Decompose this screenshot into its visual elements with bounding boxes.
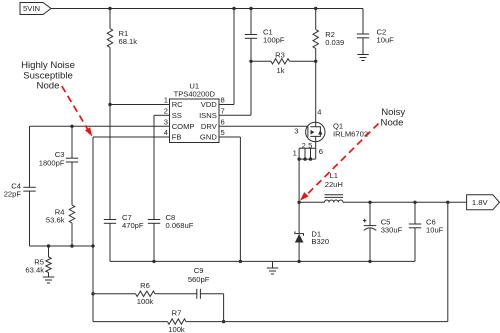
node switch node (noisy) [297, 201, 300, 204]
capacitor C8 0.068uF [148, 213, 194, 261]
svg-text:1k: 1k [276, 66, 284, 75]
svg-text:ISNS: ISNS [199, 111, 217, 120]
wire SS pin to C8 column [154, 115, 170, 219]
power flag 1.8V output [467, 195, 500, 210]
svg-text:FB: FB [172, 133, 182, 142]
svg-text:6: 6 [221, 118, 225, 127]
svg-text:10uF: 10uF [377, 36, 395, 45]
node junction ground rail at GND pin [239, 260, 242, 263]
svg-text:53.6k: 53.6k [46, 215, 65, 224]
pin number 5 (GND) [221, 128, 225, 137]
node junction rail at R4 [70, 244, 73, 247]
power flag 5VIN [20, 3, 51, 15]
svg-text:SS: SS [172, 111, 182, 120]
wire RC pin to R1 column [110, 104, 170, 106]
svg-text:8: 8 [221, 96, 225, 105]
node junction ground rail at D1 [297, 260, 300, 263]
capacitor C3 1800pF [39, 126, 78, 167]
svg-text:Node: Node [37, 80, 60, 91]
node junction output at C6 [413, 201, 416, 204]
pin number 6 (Q1 source) [319, 147, 323, 156]
node junction top rail at R2 [314, 7, 317, 10]
svg-text:100k: 100k [168, 325, 185, 333]
svg-text:4: 4 [164, 128, 168, 137]
svg-text:22uH: 22uH [325, 180, 343, 189]
resistor R3 1k [251, 51, 316, 75]
ground below C2 [357, 55, 368, 61]
pin number 2 (Q1 source) [302, 141, 306, 150]
wire ground rail [110, 260, 415, 262]
svg-text:1800pF: 1800pF [39, 158, 65, 167]
wire ISNS pin to R3 node [219, 61, 251, 115]
svg-text:5: 5 [221, 128, 225, 137]
annotation highly noise susceptible node [21, 60, 75, 91]
resistor R2 0.039 [313, 9, 344, 62]
svg-text:RC: RC [172, 100, 183, 109]
svg-text:COMP: COMP [172, 122, 195, 131]
wire top rail 5VIN to C2 [51, 8, 363, 10]
pin number 1 (RC) [164, 96, 168, 105]
ground below R5 [43, 273, 54, 283]
pin number 8 (VDD) [221, 96, 225, 105]
svg-text:B320: B320 [311, 237, 329, 246]
svg-text:0.068uF: 0.068uF [166, 221, 194, 230]
capacitor C1 100pF [245, 9, 285, 62]
capacitor C6 10uF output [409, 202, 444, 261]
node junction output at C5 [368, 201, 371, 204]
wire R2 to Q1 drain [315, 61, 317, 126]
svg-text:10uF: 10uF [426, 225, 444, 234]
capacitor C5 330uF polarized [363, 202, 403, 261]
node junction rail at FB column [91, 244, 94, 247]
node junction top rail at VDD branch [232, 7, 235, 10]
resistor R4 53.6k [46, 162, 75, 246]
svg-text:Node: Node [381, 118, 404, 129]
pin number 4 (Q1 drain) [317, 108, 321, 117]
svg-text:IRLM6702: IRLM6702 [333, 129, 368, 138]
node junction ground rail at C8 [152, 260, 155, 263]
svg-text:330uF: 330uF [381, 225, 403, 234]
wire VDD pin to top rail [219, 9, 234, 105]
svg-text:4: 4 [317, 108, 321, 117]
node junction rail at R5 [47, 244, 50, 247]
capacitor C7 470pF [104, 213, 144, 261]
svg-text:3: 3 [164, 118, 168, 127]
ground symbol on ground rail [267, 261, 278, 274]
svg-text:3: 3 [294, 127, 298, 136]
node RC junction (R1/C7/RC pin) [108, 103, 111, 106]
svg-text:470pF: 470pF [122, 221, 144, 230]
wire switch node to L1 [299, 201, 324, 203]
node junction C9 to R7 line [222, 320, 225, 323]
svg-text:100pF: 100pF [263, 36, 285, 45]
svg-text:C9: C9 [194, 266, 204, 275]
node junction COMP at C3 [70, 125, 73, 128]
svg-text:R6: R6 [140, 281, 150, 290]
wire output sense column [447, 202, 449, 321]
capacitor C9 560pF [188, 266, 224, 322]
svg-text:6: 6 [319, 147, 323, 156]
node junction ground rail at C5 [368, 260, 371, 263]
svg-text:DRV: DRV [201, 122, 218, 131]
resistor R6 100k [93, 281, 197, 306]
node junction top rail at C1 [249, 7, 252, 10]
annotation noisy node [381, 107, 406, 129]
Q1 source pin block [297, 136, 315, 160]
inductor L1 22uH [325, 171, 344, 202]
pin number 3 (Q1 gate) [294, 127, 298, 136]
svg-text:7: 7 [221, 107, 225, 116]
resistor R1 68.1k [107, 9, 137, 105]
capacitor C4 22pF [4, 126, 36, 246]
pin number 2 (SS) [164, 107, 168, 116]
capacitor C2 10uF [357, 9, 394, 55]
transistor Q1 IRLM6702 [306, 122, 368, 142]
resistor R7 100k [93, 308, 448, 333]
wire DRV pin to Q1 gate [219, 125, 308, 127]
svg-text:5: 5 [308, 141, 312, 150]
svg-text:0.039: 0.039 [325, 38, 344, 47]
node junction FB column at R6 [91, 292, 94, 295]
resistor R5 63.4k [25, 246, 51, 274]
svg-text:Noisy: Noisy [381, 107, 405, 118]
pin number 3 (COMP) [164, 118, 168, 127]
wire GND pin to ground rail [219, 137, 240, 261]
pin number 1 (Q1 source) [293, 149, 297, 158]
wire L1 to output flag [343, 201, 467, 203]
svg-text:2: 2 [302, 141, 306, 150]
wire feedback node rail [30, 245, 94, 247]
red dashed arrow to FB node [62, 86, 92, 137]
svg-text:GND: GND [200, 133, 217, 142]
pin number 6 (DRV) [221, 118, 225, 127]
svg-text:1.8V: 1.8V [472, 198, 489, 207]
svg-text:63.4k: 63.4k [25, 265, 44, 274]
svg-text:1: 1 [164, 96, 168, 105]
svg-text:22pF: 22pF [4, 190, 22, 199]
svg-text:1: 1 [293, 149, 297, 158]
svg-text:2: 2 [164, 107, 168, 116]
svg-text:68.1k: 68.1k [119, 37, 138, 46]
diode D1 B320 schottky [295, 202, 329, 261]
wire FB pin line [93, 136, 170, 138]
svg-text:VDD: VDD [201, 100, 218, 109]
node junction output at feedback [446, 201, 449, 204]
red dashed arrow to switch node [300, 124, 379, 201]
svg-text:R3: R3 [275, 51, 285, 60]
svg-text:L1: L1 [330, 171, 338, 180]
svg-text:TPS40200D: TPS40200D [174, 89, 216, 98]
pin number 5 (Q1 source) [308, 141, 312, 150]
wire Q1 source to switch node [298, 159, 300, 202]
svg-text:R7: R7 [172, 308, 182, 317]
wire R1 column down to C7 [109, 105, 111, 220]
svg-text:100k: 100k [137, 297, 154, 306]
pin number 4 (FB) [164, 128, 168, 137]
svg-text:560pF: 560pF [188, 275, 210, 284]
wire COMP pin line [30, 125, 170, 127]
pin number 7 (ISNS) [221, 107, 225, 116]
svg-text:5VIN: 5VIN [23, 4, 40, 13]
op-amp U1 TPS40200D controller [170, 82, 220, 143]
node junction top rail at R1 [108, 7, 111, 10]
wire FB column [92, 137, 94, 322]
node junction R2/R3/drain [314, 60, 317, 63]
node junction C1/R3/ISNS [249, 60, 252, 63]
